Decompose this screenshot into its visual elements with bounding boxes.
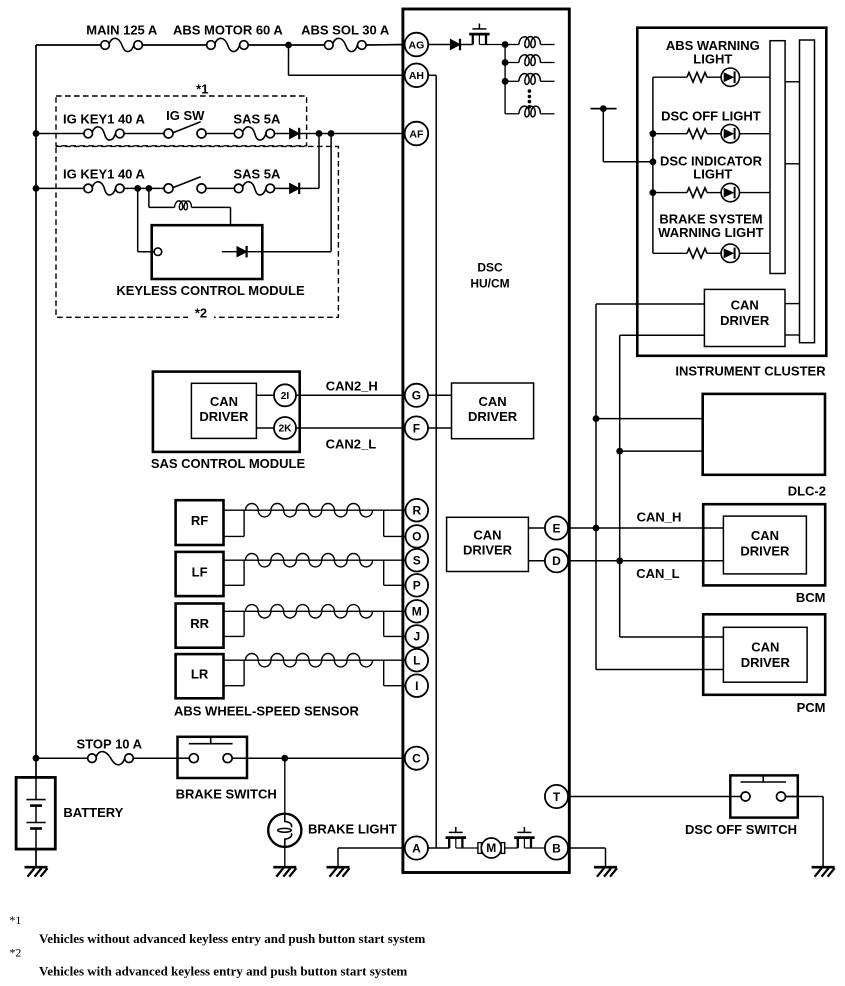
wire: [605, 848, 607, 867]
svg-text:AF: AF: [409, 128, 424, 140]
wire T to switch: [568, 796, 731, 798]
wire from A: [428, 847, 450, 849]
junction rail row2: [33, 185, 40, 192]
svg-text:KEYLESS CONTROL MODULE: KEYLESS CONTROL MODULE: [116, 283, 305, 298]
wire to terminal: [384, 584, 406, 586]
wire: [284, 847, 286, 867]
svg-text:DSC OFF LIGHT: DSC OFF LIGHT: [661, 109, 761, 124]
svg-text:2I: 2I: [281, 391, 290, 402]
junction: [650, 189, 657, 196]
diode D2 (row2): [290, 183, 300, 194]
dashed box *2 (vehicles with adv. keyless): [56, 146, 338, 317]
LED ABS WARNING LIGHT: [721, 68, 739, 86]
wire up to AF node: [330, 134, 332, 252]
wire into keyless module: [138, 251, 154, 253]
svg-text:CAN_L: CAN_L: [636, 566, 679, 581]
junction rail row1: [33, 130, 40, 137]
motor brush left: [478, 843, 482, 854]
svg-text:DRIVER: DRIVER: [463, 543, 513, 558]
wire: [299, 187, 319, 189]
diode D1 (row1): [290, 128, 300, 139]
twisted pair LF: [246, 554, 373, 567]
wire: [256, 394, 274, 396]
wire: [505, 113, 519, 115]
wire: [653, 192, 687, 194]
ground (DSC A): [327, 867, 350, 877]
wire feed drop: [602, 109, 604, 162]
wire: [740, 76, 770, 78]
wire jog down: [383, 660, 385, 686]
wire: [479, 44, 505, 46]
battery cells: [26, 777, 45, 849]
svg-text:*2: *2: [195, 306, 207, 321]
wire from A: [338, 847, 405, 849]
wire D CAN_L: [568, 560, 724, 562]
svg-text:LF: LF: [192, 565, 208, 580]
svg-text:M: M: [412, 605, 422, 619]
svg-text:ABS SOL 30 A: ABS SOL 30 A: [301, 23, 390, 38]
wire to battery: [35, 758, 37, 777]
junction battery node: [33, 755, 40, 762]
svg-text:T: T: [553, 790, 561, 804]
wire: [707, 133, 721, 135]
wire: [505, 847, 518, 849]
svg-text:BATTERY: BATTERY: [63, 805, 123, 820]
fuse ABS SOL 30 A: [325, 38, 367, 51]
wire: [275, 187, 290, 189]
LED DSC OFF LIGHT: [721, 125, 739, 143]
wire: [707, 192, 721, 194]
resistor (DSC INDICATOR LIGHT): [687, 188, 707, 198]
fuse MAIN 125 A: [101, 38, 143, 51]
lamp BRAKE LIGHT: [268, 814, 301, 847]
svg-text:DRIVER: DRIVER: [468, 409, 518, 424]
switch DSC OFF SWITCH: [730, 775, 798, 817]
svg-text:C: C: [412, 752, 421, 766]
wire: [540, 44, 554, 46]
wire to D: [528, 560, 546, 562]
svg-text:SAS 5A: SAS 5A: [233, 111, 281, 126]
junction row2 feed: [316, 130, 323, 137]
svg-text:Vehicles with advanced keyless: Vehicles with advanced keyless entry and…: [39, 964, 407, 979]
svg-text:F: F: [413, 421, 420, 435]
junction: [502, 59, 509, 66]
wire inner rail: [435, 75, 437, 848]
wire B+ feed: [36, 44, 101, 46]
box CAN DRIVER (DSC lower): [447, 517, 529, 571]
box SAS CONTROL MODULE: [153, 372, 300, 452]
wire to terminal: [384, 635, 406, 637]
wire jog down: [383, 611, 385, 636]
wire to E: [528, 527, 546, 529]
junction D bus: [616, 557, 623, 564]
junction keyless feed: [328, 130, 335, 137]
svg-text:IG KEY1 40 A: IG KEY1 40 A: [63, 166, 145, 181]
wire solenoid bus: [504, 45, 506, 114]
wire CAN2_H: [296, 394, 405, 396]
transistor Q1 (solenoid driver): [469, 24, 489, 45]
svg-text:CAN_H: CAN_H: [637, 509, 682, 524]
svg-text:RR: RR: [190, 616, 209, 631]
wire: [192, 206, 231, 208]
transistor Q3 (motor driver): [514, 827, 534, 848]
svg-text:BRAKE SWITCH: BRAKE SWITCH: [176, 787, 277, 802]
junction DLC CAN_L: [616, 448, 623, 455]
box INSTRUMENT CLUSTER: [637, 28, 826, 356]
svg-text:SAS 5A: SAS 5A: [233, 166, 281, 181]
wire CAN_H to PCM: [596, 669, 723, 671]
ground (DSC B): [594, 867, 617, 877]
resistor (DSC OFF LIGHT): [687, 129, 707, 139]
terminal AF: [405, 122, 429, 146]
svg-text:CAN: CAN: [210, 394, 238, 409]
svg-text:CAN2_H: CAN2_H: [326, 379, 378, 394]
wire CAN_L to PCM: [620, 636, 724, 638]
wire keyless output: [262, 251, 331, 253]
wire CAN_H out: [596, 303, 704, 305]
svg-text:P: P: [413, 579, 421, 593]
motor M (ABS pump): [481, 838, 501, 858]
wire: [540, 113, 554, 115]
terminal S: [406, 549, 429, 572]
svg-text:WARNING LIGHT: WARNING LIGHT: [658, 225, 763, 240]
wire to AF: [299, 133, 405, 135]
terminal P: [406, 574, 429, 597]
svg-text:Vehicles without advanced keyl: Vehicles without advanced keyless entry …: [39, 931, 425, 946]
wire stop fuse feed: [36, 757, 88, 759]
terminal J: [406, 625, 429, 648]
fuse STOP 10 A: [88, 752, 134, 765]
terminal B: [545, 836, 568, 859]
wire keyless supply drop: [137, 188, 139, 251]
wire branch down: [288, 45, 290, 75]
box sensor LF: [176, 552, 224, 596]
wire to AG: [366, 44, 406, 47]
svg-text:2K: 2K: [278, 424, 292, 435]
wire jog up: [243, 560, 245, 585]
junction keyless supply: [134, 185, 141, 192]
svg-text:ABS WHEEL-SPEED SENSOR: ABS WHEEL-SPEED SENSOR: [174, 704, 360, 719]
svg-text:BCM: BCM: [796, 590, 826, 605]
junction DLC CAN_H: [593, 415, 600, 422]
wire: [124, 133, 164, 135]
wire bar link: [785, 163, 799, 165]
fuse IG KEY1 40 A (row2): [84, 182, 124, 195]
wire to terminal: [384, 685, 406, 687]
box CAN DRIVER (SAS): [191, 383, 256, 438]
wire: [460, 44, 473, 46]
motor brush right: [501, 843, 505, 854]
svg-text:G: G: [412, 389, 421, 403]
wire: [740, 252, 770, 254]
svg-text:STOP 10 A: STOP 10 A: [77, 736, 143, 751]
svg-text:BRAKE LIGHT: BRAKE LIGHT: [308, 822, 397, 837]
box lamp driver bar 2: [800, 40, 815, 343]
svg-text:*1: *1: [9, 913, 21, 927]
wire: [740, 133, 770, 135]
svg-text:CAN2_L: CAN2_L: [326, 437, 377, 452]
svg-text:PCM: PCM: [797, 700, 826, 715]
wire relay coil drop: [148, 188, 150, 207]
svg-text:DRIVER: DRIVER: [741, 655, 791, 670]
wire jog up: [243, 611, 245, 636]
pin 2I: [274, 384, 296, 406]
junction: [650, 158, 657, 165]
ground (battery): [25, 867, 48, 877]
junction: [502, 78, 509, 85]
switch BRAKE SWITCH: [178, 737, 248, 778]
wire: [653, 133, 687, 135]
wire: [456, 847, 478, 849]
terminal C: [405, 747, 428, 770]
wire bar link: [785, 81, 799, 83]
svg-text:CAN: CAN: [751, 640, 779, 655]
svg-text:CAN: CAN: [731, 298, 759, 313]
wire from AH: [427, 74, 436, 76]
resistor (ABS WARNING LIGHT): [687, 72, 707, 82]
wire: [653, 76, 687, 78]
wire: [620, 450, 703, 452]
switch IG SW: [164, 122, 206, 138]
terminal M: [406, 600, 429, 623]
wire F to CAN driver: [427, 427, 451, 429]
svg-text:CAN: CAN: [479, 394, 507, 409]
svg-text:J: J: [413, 630, 420, 644]
terminal AG: [405, 33, 429, 57]
wire: [540, 80, 554, 82]
terminal I: [406, 674, 429, 697]
svg-text:E: E: [552, 521, 560, 535]
junction to AH: [285, 42, 292, 49]
wire into module top: [230, 207, 232, 225]
diode D3 (keyless internal): [237, 246, 247, 257]
svg-text:R: R: [412, 504, 421, 518]
box battery: [16, 777, 55, 849]
solenoid coil L2: [519, 37, 541, 48]
wire CAN_H bus: [595, 304, 597, 670]
wire row2: [36, 187, 84, 189]
junction relay coil: [146, 185, 153, 192]
dashed box *1 (vehicles without adv. keyless): [56, 96, 307, 146]
wire RR signal-: [224, 635, 245, 637]
fuse ABS MOTOR 60 A: [207, 38, 249, 51]
wire cluster lamp rail: [652, 77, 654, 253]
svg-text:AH: AH: [409, 70, 424, 82]
wire: [149, 206, 175, 208]
svg-text:HU/CM: HU/CM: [470, 277, 509, 291]
wire: [785, 303, 800, 305]
twisted pair RR: [246, 605, 373, 618]
wire: [256, 427, 274, 429]
wire: [505, 44, 519, 46]
svg-text:CAN: CAN: [473, 528, 501, 543]
transistor Q2 (motor driver): [446, 827, 466, 848]
box CAN DRIVER (cluster): [704, 289, 785, 346]
box DLC-2: [703, 394, 825, 475]
wire: [786, 796, 824, 798]
node B+ left rail: [35, 45, 37, 758]
wire to AH: [289, 74, 406, 76]
wire: [822, 797, 824, 868]
terminal A: [405, 836, 428, 859]
wire LF signal-: [224, 584, 245, 586]
junction: [650, 130, 657, 137]
terminal AH: [405, 64, 429, 88]
svg-text:CAN: CAN: [751, 528, 779, 543]
svg-text:LR: LR: [191, 667, 209, 682]
wire up to AF node: [318, 134, 320, 189]
wire: [206, 133, 234, 135]
wire: [124, 187, 164, 189]
pin circle keyless module: [154, 248, 162, 256]
box PCM: [703, 614, 825, 695]
svg-text:S: S: [413, 554, 421, 568]
node power feed tick: [591, 108, 617, 110]
svg-text:IG KEY1 40 A: IG KEY1 40 A: [63, 111, 145, 126]
junction E bus: [593, 525, 600, 532]
wire: [505, 62, 519, 64]
wire E CAN_H: [568, 527, 724, 529]
svg-text:I: I: [415, 679, 418, 693]
svg-text:AG: AG: [409, 39, 425, 51]
wire LF signal+: [224, 559, 406, 561]
wire brake light drop: [284, 758, 286, 813]
wire internal out: [247, 251, 263, 253]
terminal D: [545, 549, 568, 572]
svg-text:DRIVER: DRIVER: [199, 409, 249, 424]
wire LR signal-: [224, 685, 245, 687]
wire from AG: [427, 44, 450, 46]
wire CAN_L bus: [619, 335, 621, 637]
wire: [524, 847, 545, 849]
svg-text:ABS MOTOR 60 A: ABS MOTOR 60 A: [173, 23, 283, 38]
svg-text:LIGHT: LIGHT: [693, 51, 732, 66]
twisted pair LR: [246, 654, 373, 667]
fuse IG KEY1 40 A (row1): [84, 127, 124, 140]
terminal T: [545, 785, 568, 808]
box lamp driver bar 1: [770, 41, 785, 274]
wire CAN_L out: [620, 334, 705, 336]
junction feed: [600, 105, 607, 112]
box CAN DRIVER (PCM): [723, 627, 807, 682]
wire: [275, 133, 290, 135]
LED DSC INDICATOR LIGHT: [721, 183, 739, 201]
svg-text:M: M: [486, 841, 496, 855]
solenoid coil L3: [519, 55, 541, 66]
box BCM: [703, 504, 825, 585]
terminal G: [405, 384, 428, 407]
wire LR signal+: [224, 659, 406, 661]
wire: [596, 418, 703, 420]
wire: [707, 76, 721, 78]
wire to terminal: [384, 535, 406, 537]
wire RF signal+: [224, 509, 406, 511]
wire: [337, 848, 339, 867]
wire battery ground: [35, 849, 37, 867]
LED BRAKE SYSTEM WARNING LIGHT: [721, 244, 739, 262]
wire jog down: [383, 510, 385, 536]
svg-text:MAIN 125 A: MAIN 125 A: [86, 23, 158, 38]
junction solenoid bus: [502, 41, 509, 48]
fuse SAS 5A (row1): [234, 127, 274, 140]
svg-text:*2: *2: [9, 946, 21, 960]
wire: [248, 44, 324, 46]
ground (brake light): [273, 867, 296, 877]
wire: [540, 62, 554, 64]
svg-text:DLC-2: DLC-2: [788, 483, 826, 498]
svg-text:RF: RF: [191, 513, 208, 528]
fuse SAS 5A (row2): [234, 182, 274, 195]
solenoid coil L5: [519, 106, 541, 117]
svg-text:L: L: [413, 654, 420, 668]
svg-text:*1: *1: [196, 82, 208, 97]
ellipsis (more solenoids): [528, 89, 532, 108]
relay coil L1: [175, 201, 192, 210]
svg-text:DSC: DSC: [477, 261, 503, 275]
wire into cluster: [603, 161, 653, 163]
svg-text:DSC OFF SWITCH: DSC OFF SWITCH: [685, 822, 797, 837]
box KEYLESS CONTROL MODULE: [152, 225, 263, 279]
wire: [707, 252, 721, 254]
wire to C: [232, 757, 405, 759]
terminal L: [406, 649, 429, 672]
wire RR signal+: [224, 610, 406, 612]
wire row1: [36, 133, 84, 135]
terminal O: [406, 525, 429, 548]
svg-text:B: B: [552, 841, 561, 855]
svg-text:IG SW: IG SW: [166, 108, 205, 123]
pin 2K: [274, 417, 296, 439]
svg-text:DRIVER: DRIVER: [720, 313, 770, 328]
wire CAN2_L: [296, 427, 405, 429]
svg-text:O: O: [412, 530, 421, 544]
box sensor RF: [176, 500, 224, 545]
box sensor RR: [176, 604, 224, 648]
svg-text:DRIVER: DRIVER: [740, 544, 790, 559]
wire: [740, 192, 770, 194]
twisted pair RF: [246, 504, 373, 517]
box sensor LR: [176, 654, 224, 698]
box DSC HU/CM: [403, 9, 569, 873]
junction brake light: [281, 755, 288, 762]
solenoid coil L4: [519, 73, 541, 84]
wire from B: [568, 847, 606, 849]
switch (row2): [164, 177, 206, 193]
wire: [785, 334, 800, 336]
label *2 backing: [188, 309, 214, 321]
wire: [206, 187, 234, 189]
svg-text:SAS CONTROL MODULE: SAS CONTROL MODULE: [151, 456, 306, 471]
box CAN DRIVER (BCM): [723, 516, 806, 574]
svg-text:D: D: [552, 554, 561, 568]
wire RF signal-: [224, 535, 245, 537]
terminal R: [406, 499, 429, 522]
svg-text:LIGHT: LIGHT: [693, 167, 732, 182]
wire jog down: [383, 560, 385, 585]
wire: [142, 44, 206, 46]
wire G to CAN driver: [427, 394, 451, 396]
svg-text:INSTRUMENT CLUSTER: INSTRUMENT CLUSTER: [675, 364, 826, 379]
svg-text:A: A: [412, 841, 421, 855]
ground (DSC OFF switch): [812, 867, 835, 877]
box CAN DRIVER (DSC upper): [452, 383, 534, 439]
wire jog up: [243, 510, 245, 536]
wire: [505, 80, 519, 82]
terminal E: [545, 516, 568, 539]
terminal F: [405, 416, 428, 439]
wire jog up: [243, 660, 245, 686]
diode D4 (solenoid feed): [450, 39, 460, 50]
